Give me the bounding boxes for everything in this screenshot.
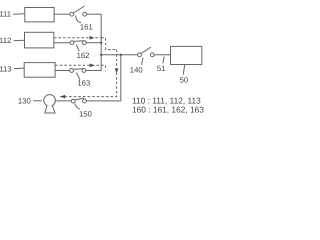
label 161 bbox=[80, 23, 93, 32]
leader 50 bbox=[183, 65, 185, 75]
bus horizontal wire bbox=[101, 54, 137, 56]
switch 162 bbox=[70, 41, 74, 45]
dashed drop from 113 line bbox=[105, 65, 107, 70]
arrow left toward pump on return line bbox=[60, 95, 65, 99]
leader 163 bbox=[76, 73, 80, 80]
dashed arrow line 113 bbox=[55, 64, 105, 66]
wire 111 to switch 161 bbox=[54, 13, 70, 15]
wire 113 to switch 163 bbox=[55, 70, 70, 72]
label 51 bbox=[157, 64, 166, 73]
node junction bus A with horizontal bus bbox=[100, 54, 103, 57]
svg-text:140: 140 bbox=[130, 66, 143, 75]
leader 162 bbox=[76, 45, 79, 52]
legend text 160 bbox=[132, 104, 204, 114]
switch 161 bbox=[70, 12, 74, 16]
svg-text:130: 130 bbox=[18, 96, 31, 105]
wire pump to switch 150 bbox=[55, 100, 71, 102]
svg-text:113: 113 bbox=[0, 64, 12, 73]
leader 51 bbox=[163, 57, 165, 64]
label 113 bbox=[0, 64, 12, 73]
dashed vertical C down to return line bbox=[60, 50, 116, 97]
arrow down on C bbox=[115, 69, 119, 74]
label 112 bbox=[0, 36, 11, 45]
dashed arrow line 112 bbox=[54, 37, 101, 39]
switch 140 bbox=[138, 53, 142, 57]
svg-text:150: 150 bbox=[79, 109, 92, 118]
label 140 bbox=[130, 66, 143, 75]
box 111 bbox=[25, 8, 54, 22]
label 150 bbox=[79, 109, 92, 118]
svg-text:112: 112 bbox=[0, 36, 11, 45]
box 50 bbox=[171, 46, 202, 64]
wire vertical bus A bbox=[100, 14, 102, 70]
box 112 bbox=[25, 32, 54, 48]
switch 150 bbox=[71, 99, 75, 103]
node junction B bbox=[120, 54, 123, 57]
label 111 bbox=[0, 9, 11, 18]
svg-text:163: 163 bbox=[77, 79, 90, 88]
leader 150 bbox=[75, 103, 80, 109]
wire switch 163 to bus A bbox=[86, 70, 101, 72]
node junction 162 on bus A bbox=[100, 41, 103, 44]
svg-text:51: 51 bbox=[157, 64, 166, 73]
label 50 bbox=[180, 75, 189, 84]
legend text 110 bbox=[132, 95, 201, 105]
svg-text:50: 50 bbox=[180, 75, 189, 84]
wire vertical B from bus junction down to pump line bbox=[86, 55, 120, 101]
leader 161 bbox=[76, 16, 81, 23]
wire switch 162 to node on bus A bbox=[86, 42, 101, 44]
leader 112 bbox=[14, 39, 25, 42]
leader 130 bbox=[33, 100, 42, 102]
leader 140 bbox=[142, 58, 143, 65]
leader 113 bbox=[14, 67, 25, 70]
label 163 bbox=[77, 79, 90, 88]
label 162 bbox=[77, 51, 90, 60]
svg-text:162: 162 bbox=[77, 51, 90, 60]
svg-text:161: 161 bbox=[80, 23, 93, 32]
switch 163 bbox=[70, 69, 74, 73]
svg-text:111: 111 bbox=[0, 9, 11, 18]
wire 51 switch 140 to box 50 bbox=[154, 54, 170, 56]
dashed stair from 112 line to vertical C bbox=[101, 38, 116, 50]
wire switch 161 to corner bbox=[87, 13, 102, 15]
pump 130 bbox=[44, 95, 56, 107]
svg-text:160 : 161, 162, 163: 160 : 161, 162, 163 bbox=[132, 104, 204, 114]
wire 112 to switch 162 bbox=[54, 42, 70, 44]
box 113 bbox=[24, 63, 55, 78]
leader 111 bbox=[13, 13, 25, 16]
label 130 bbox=[18, 96, 31, 105]
